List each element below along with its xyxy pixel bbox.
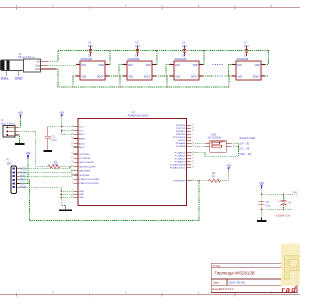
- svg-text:EasyEDA V4.9.2: EasyEDA V4.9.2: [212, 287, 234, 291]
- svg-text:(MISO)PB4: (MISO)PB4: [79, 171, 91, 173]
- svg-text:VDD: VDD: [99, 64, 104, 67]
- svg-text:2: 2: [201, 75, 202, 77]
- power flag +5V (R2): [226, 164, 231, 172]
- svg-text:PC6/RESET: PC6/RESET: [173, 181, 186, 183]
- ground (MCU): [65, 206, 67, 210]
- svg-text:4: 4: [77, 63, 78, 65]
- wire DOUT D2 to DIN D3: [156, 65, 170, 77]
- capacitor C6 0.1u: [183, 46, 186, 57]
- svg-text:1: 1: [107, 63, 108, 65]
- svg-text:SW1: SW1: [211, 133, 217, 137]
- svg-text:AREF: AREF: [79, 137, 85, 140]
- svg-text:C5: C5: [135, 41, 139, 45]
- wire VDD D2 to +5V bus: [156, 51, 157, 65]
- wire continuation to DIN D4: [225, 65, 233, 77]
- svg-text:5: 5: [270, 291, 272, 295]
- svg-text:VSS: VSS: [175, 76, 180, 79]
- svg-text:Plug 3.5mm: Plug 3.5mm: [19, 55, 36, 59]
- svg-text:+: +: [278, 199, 280, 203]
- svg-text:ADC7: ADC7: [79, 146, 86, 149]
- svg-text:32: 32: [192, 130, 194, 132]
- svg-text:(MOSI/OC2)PB3: (MOSI/OC2)PB3: [79, 166, 96, 168]
- svg-text:+5V: +5V: [18, 110, 23, 114]
- svg-text:Гирлянда WS2812B: Гирлянда WS2812B: [215, 271, 255, 276]
- svg-text:C7: C7: [244, 41, 248, 45]
- resistor R2 (RESET pull-up): [191, 180, 209, 182]
- svg-text:OFF - 48: OFF - 48: [239, 152, 251, 156]
- svg-text:VSS: VSS: [128, 76, 133, 79]
- svg-text:DIN: DIN: [128, 64, 132, 67]
- svg-text:0.1u: 0.1u: [135, 44, 141, 48]
- svg-text:+5V: +5V: [26, 151, 31, 155]
- wire jack Data to R1: [19, 131, 48, 166]
- svg-text:4: 4: [198, 291, 200, 295]
- svg-text:24: 24: [192, 155, 194, 157]
- title block: [211, 263, 297, 292]
- svg-text:1,4 - 30: 1,4 - 30: [239, 141, 249, 145]
- svg-text:13: 13: [71, 157, 73, 159]
- svg-text:DOUT: DOUT: [191, 76, 198, 79]
- svg-text:ADC6: ADC6: [79, 143, 86, 146]
- svg-text:Data: Data: [1, 77, 9, 81]
- svg-text:VDD: VDD: [146, 64, 151, 67]
- svg-text:SPI: SPI: [7, 161, 12, 165]
- svg-text:VDD: VDD: [193, 64, 198, 67]
- wire VDD D1 to +5V bus: [109, 51, 110, 65]
- svg-text:Date:: Date:: [213, 281, 220, 285]
- wire VSS D3 to GND bus: [167, 76, 170, 87]
- svg-text:4: 4: [233, 63, 234, 65]
- svg-text:DIN: DIN: [81, 64, 85, 67]
- svg-text:2: 2: [263, 75, 264, 77]
- svg-text:GND: GND: [79, 194, 84, 196]
- svg-text:DIN: DIN: [175, 64, 179, 67]
- svg-text:WS2812B: WS2812B: [175, 57, 187, 61]
- svg-text:(SS/OC1B)PB2: (SS/OC1B)PB2: [79, 162, 95, 164]
- svg-text:Switch LED: Switch LED: [239, 136, 256, 140]
- svg-text:C3: C3: [288, 200, 292, 204]
- wire DOUT D4 stub: [265, 75, 269, 77]
- note Switch LED: [239, 136, 256, 156]
- capacitor C2 0.1u: [259, 202, 265, 205]
- label Data (plug tip): [6, 71, 8, 76]
- svg-text:2: 2: [52, 4, 54, 8]
- svg-text:JS0-2038SM: JS0-2038SM: [208, 138, 221, 140]
- svg-text:(SCK)PB5: (SCK)PB5: [79, 175, 90, 177]
- wire MISO: [20, 171, 75, 173]
- svg-text:PD1/TXD: PD1/TXD: [176, 128, 186, 130]
- svg-text:3: 3: [125, 4, 127, 8]
- svg-text:4: 4: [198, 4, 200, 8]
- svg-text:PD6/AIN0: PD6/AIN0: [176, 142, 187, 145]
- svg-text:VSS: VSS: [237, 76, 242, 79]
- ground (jack J1): [15, 143, 24, 145]
- svg-text:3: 3: [77, 75, 78, 77]
- svg-text:2: 2: [154, 75, 155, 77]
- svg-text:(ICP1)PB0: (ICP1)PB0: [79, 154, 90, 156]
- svg-text:1: 1: [201, 63, 202, 65]
- svg-text:PD7/AIN1: PD7/AIN1: [176, 145, 187, 148]
- svg-text:+5V: +5V: [36, 61, 41, 63]
- power flag +5V (MCU supply): [59, 110, 64, 118]
- svg-text:+100uF 6.3v: +100uF 6.3v: [276, 214, 291, 218]
- svg-text:12: 12: [71, 153, 73, 155]
- svg-text:DOUT: DOUT: [144, 76, 151, 79]
- wire jack GND to ground: [19, 135, 20, 143]
- wire VSS D2 to GND bus: [120, 76, 123, 87]
- svg-text:Jack 3.5mm: Jack 3.5mm: [1, 122, 14, 125]
- svg-text:GND: GND: [20, 185, 26, 189]
- svg-text:VCC: VCC: [79, 127, 84, 129]
- svg-text:Data: Data: [35, 64, 41, 67]
- capacitor C4 0.1u: [89, 46, 92, 57]
- wire VDD D3 to +5V bus: [203, 51, 204, 65]
- svg-text:2017-10-09: 2017-10-09: [229, 281, 245, 285]
- svg-text:20: 20: [71, 137, 73, 139]
- svg-text:DOUT: DOUT: [253, 76, 260, 79]
- svg-text:PC4/ADC4/SDA: PC4/ADC4/SDA: [170, 164, 186, 167]
- svg-text:+5V: +5V: [259, 181, 264, 185]
- power flag +5V (supply filter): [259, 181, 264, 189]
- wire GND bus (LED chain): [56, 69, 229, 87]
- svg-text:GND: GND: [79, 191, 84, 193]
- svg-text:PD0/RXD: PD0/RXD: [176, 125, 186, 127]
- svg-text:31: 31: [192, 127, 194, 129]
- svg-text:26: 26: [192, 161, 194, 163]
- svg-text:DIN: DIN: [237, 64, 241, 67]
- svg-text:1: 1: [192, 133, 193, 135]
- svg-text:WS2812B: WS2812B: [237, 57, 249, 61]
- svg-text:XTAL2/TOSC2(PB7): XTAL2/TOSC2(PB7): [79, 182, 99, 185]
- wire VDD D4 to +5V bus: [265, 51, 269, 65]
- svg-text:0.1u: 0.1u: [266, 204, 271, 207]
- svg-text:5: 5: [270, 4, 272, 8]
- svg-text:3: 3: [124, 75, 125, 77]
- wire MOSI: [20, 167, 71, 169]
- svg-text:PC5/ADC5/SCL: PC5/ADC5/SCL: [170, 167, 186, 170]
- capacitor C1 0.1u: [45, 127, 51, 150]
- svg-text:WS2812B: WS2812B: [81, 57, 93, 61]
- svg-text:2: 2: [107, 75, 108, 77]
- svg-text:9: 9: [192, 139, 193, 141]
- svg-text:28: 28: [192, 167, 194, 169]
- label GND (plug sleeve): [17, 71, 19, 76]
- svg-text:PD4/T0/XCK: PD4/T0/XCK: [173, 137, 186, 139]
- wire +5V bus (LED chain): [48, 51, 269, 88]
- ground (C1): [44, 150, 53, 152]
- svg-text:C4: C4: [88, 41, 92, 45]
- svg-text:+5V: +5V: [59, 110, 64, 114]
- svg-text:TITLE:: TITLE:: [213, 264, 221, 268]
- junction dots LED chain: [72, 50, 269, 88]
- svg-text:0.1u: 0.1u: [88, 44, 94, 48]
- svg-text:4: 4: [171, 63, 172, 65]
- connector J4 Plug 3.5mm: [1, 52, 57, 72]
- svg-text:4: 4: [124, 63, 125, 65]
- svg-text:3: 3: [171, 75, 172, 77]
- wires MCU to SW1: [191, 143, 205, 146]
- svg-text:PC1/ADC1: PC1/ADC1: [175, 155, 186, 158]
- svg-text:3: 3: [125, 291, 127, 295]
- svg-text:RST: RST: [20, 178, 26, 182]
- wire Data plug to D1 DIN: [48, 64, 76, 66]
- svg-text:PD5/T1: PD5/T1: [178, 140, 186, 142]
- svg-text:2: 2: [52, 291, 54, 295]
- svg-text:PC2/ADC2: PC2/ADC2: [175, 158, 186, 161]
- wire RST loop to MCU RESET: [20, 180, 200, 221]
- wire SW1 return: [191, 143, 239, 156]
- svg-text:1: 1: [154, 63, 155, 65]
- svg-text:7: 7: [72, 178, 73, 180]
- wire DOUT D3 continuation: [203, 75, 212, 77]
- wire +5V to VCC pins: [48, 117, 74, 134]
- wire DOUT D1 to DIN D2: [109, 65, 123, 77]
- svg-text:Ра: Ра: [282, 249, 300, 287]
- svg-text:ATMEGA8-16AU: ATMEGA8-16AU: [128, 114, 149, 118]
- svg-text:GND: GND: [15, 77, 23, 81]
- svg-text:PC0/ADC0: PC0/ADC0: [175, 152, 186, 155]
- wire header GND to ground: [20, 187, 66, 205]
- svg-text:14: 14: [71, 161, 73, 163]
- svg-text:GND: GND: [35, 69, 40, 71]
- svg-text:+5V: +5V: [226, 164, 231, 168]
- svg-text:C6: C6: [182, 41, 186, 45]
- ground (supply filter): [261, 217, 263, 220]
- svg-text:VDD: VDD: [255, 64, 260, 67]
- svg-text:0.1u: 0.1u: [244, 44, 250, 48]
- capacitor C5 0.1u: [136, 46, 139, 57]
- svg-text:SCK: SCK: [20, 174, 26, 178]
- svg-text:VCC: VCC: [79, 131, 84, 133]
- wire MCU GND pins: [61, 191, 74, 197]
- capacitor C3 100uF electrolytic: [281, 201, 287, 205]
- capacitor C7 0.1u: [245, 46, 248, 57]
- svg-text:VSS: VSS: [81, 76, 86, 79]
- svg-text:0.1u: 0.1u: [182, 44, 188, 48]
- svg-text:1: 1: [263, 63, 264, 65]
- svg-text:2: 2: [192, 136, 193, 138]
- svg-text:DOUT: DOUT: [97, 76, 104, 79]
- svg-text:PC3/ADC3: PC3/ADC3: [175, 161, 186, 164]
- chain continuation dots: [213, 64, 223, 77]
- svg-text:AVCC: AVCC: [79, 133, 85, 136]
- wire VSS D1 to GND bus: [73, 76, 76, 87]
- wire VSS D4 to GND bus: [229, 76, 232, 87]
- svg-text:WS2812B: WS2812B: [128, 57, 140, 61]
- svg-text:(OC1A)PB1: (OC1A)PB1: [79, 157, 91, 160]
- svg-text:19: 19: [71, 142, 73, 144]
- svg-text:2,3 - 38: 2,3 - 38: [239, 147, 249, 151]
- svg-text:3: 3: [233, 75, 234, 77]
- wire SCK: [20, 175, 75, 176]
- wire +5V filter rail: [262, 188, 297, 218]
- svg-text:rad: rad: [282, 285, 298, 294]
- power flag +5V (SPI header): [26, 151, 31, 159]
- svg-text:XTAL1/TOSC1(PB6): XTAL1/TOSC1(PB6): [79, 178, 99, 181]
- svg-text:0.1u: 0.1u: [52, 138, 58, 142]
- svg-text:22: 22: [71, 146, 73, 148]
- junction dots (filter): [261, 194, 284, 210]
- svg-text:27: 27: [192, 164, 194, 166]
- svg-text:30: 30: [192, 124, 194, 126]
- svg-text:25: 25: [192, 158, 194, 160]
- power flag +5V (jack J1): [18, 110, 23, 118]
- svg-text:GND: GND: [79, 197, 84, 199]
- svg-text:PD3/INT1: PD3/INT1: [176, 134, 186, 136]
- svg-text:8: 8: [72, 182, 73, 184]
- svg-text:PD2/INT0: PD2/INT0: [176, 131, 186, 133]
